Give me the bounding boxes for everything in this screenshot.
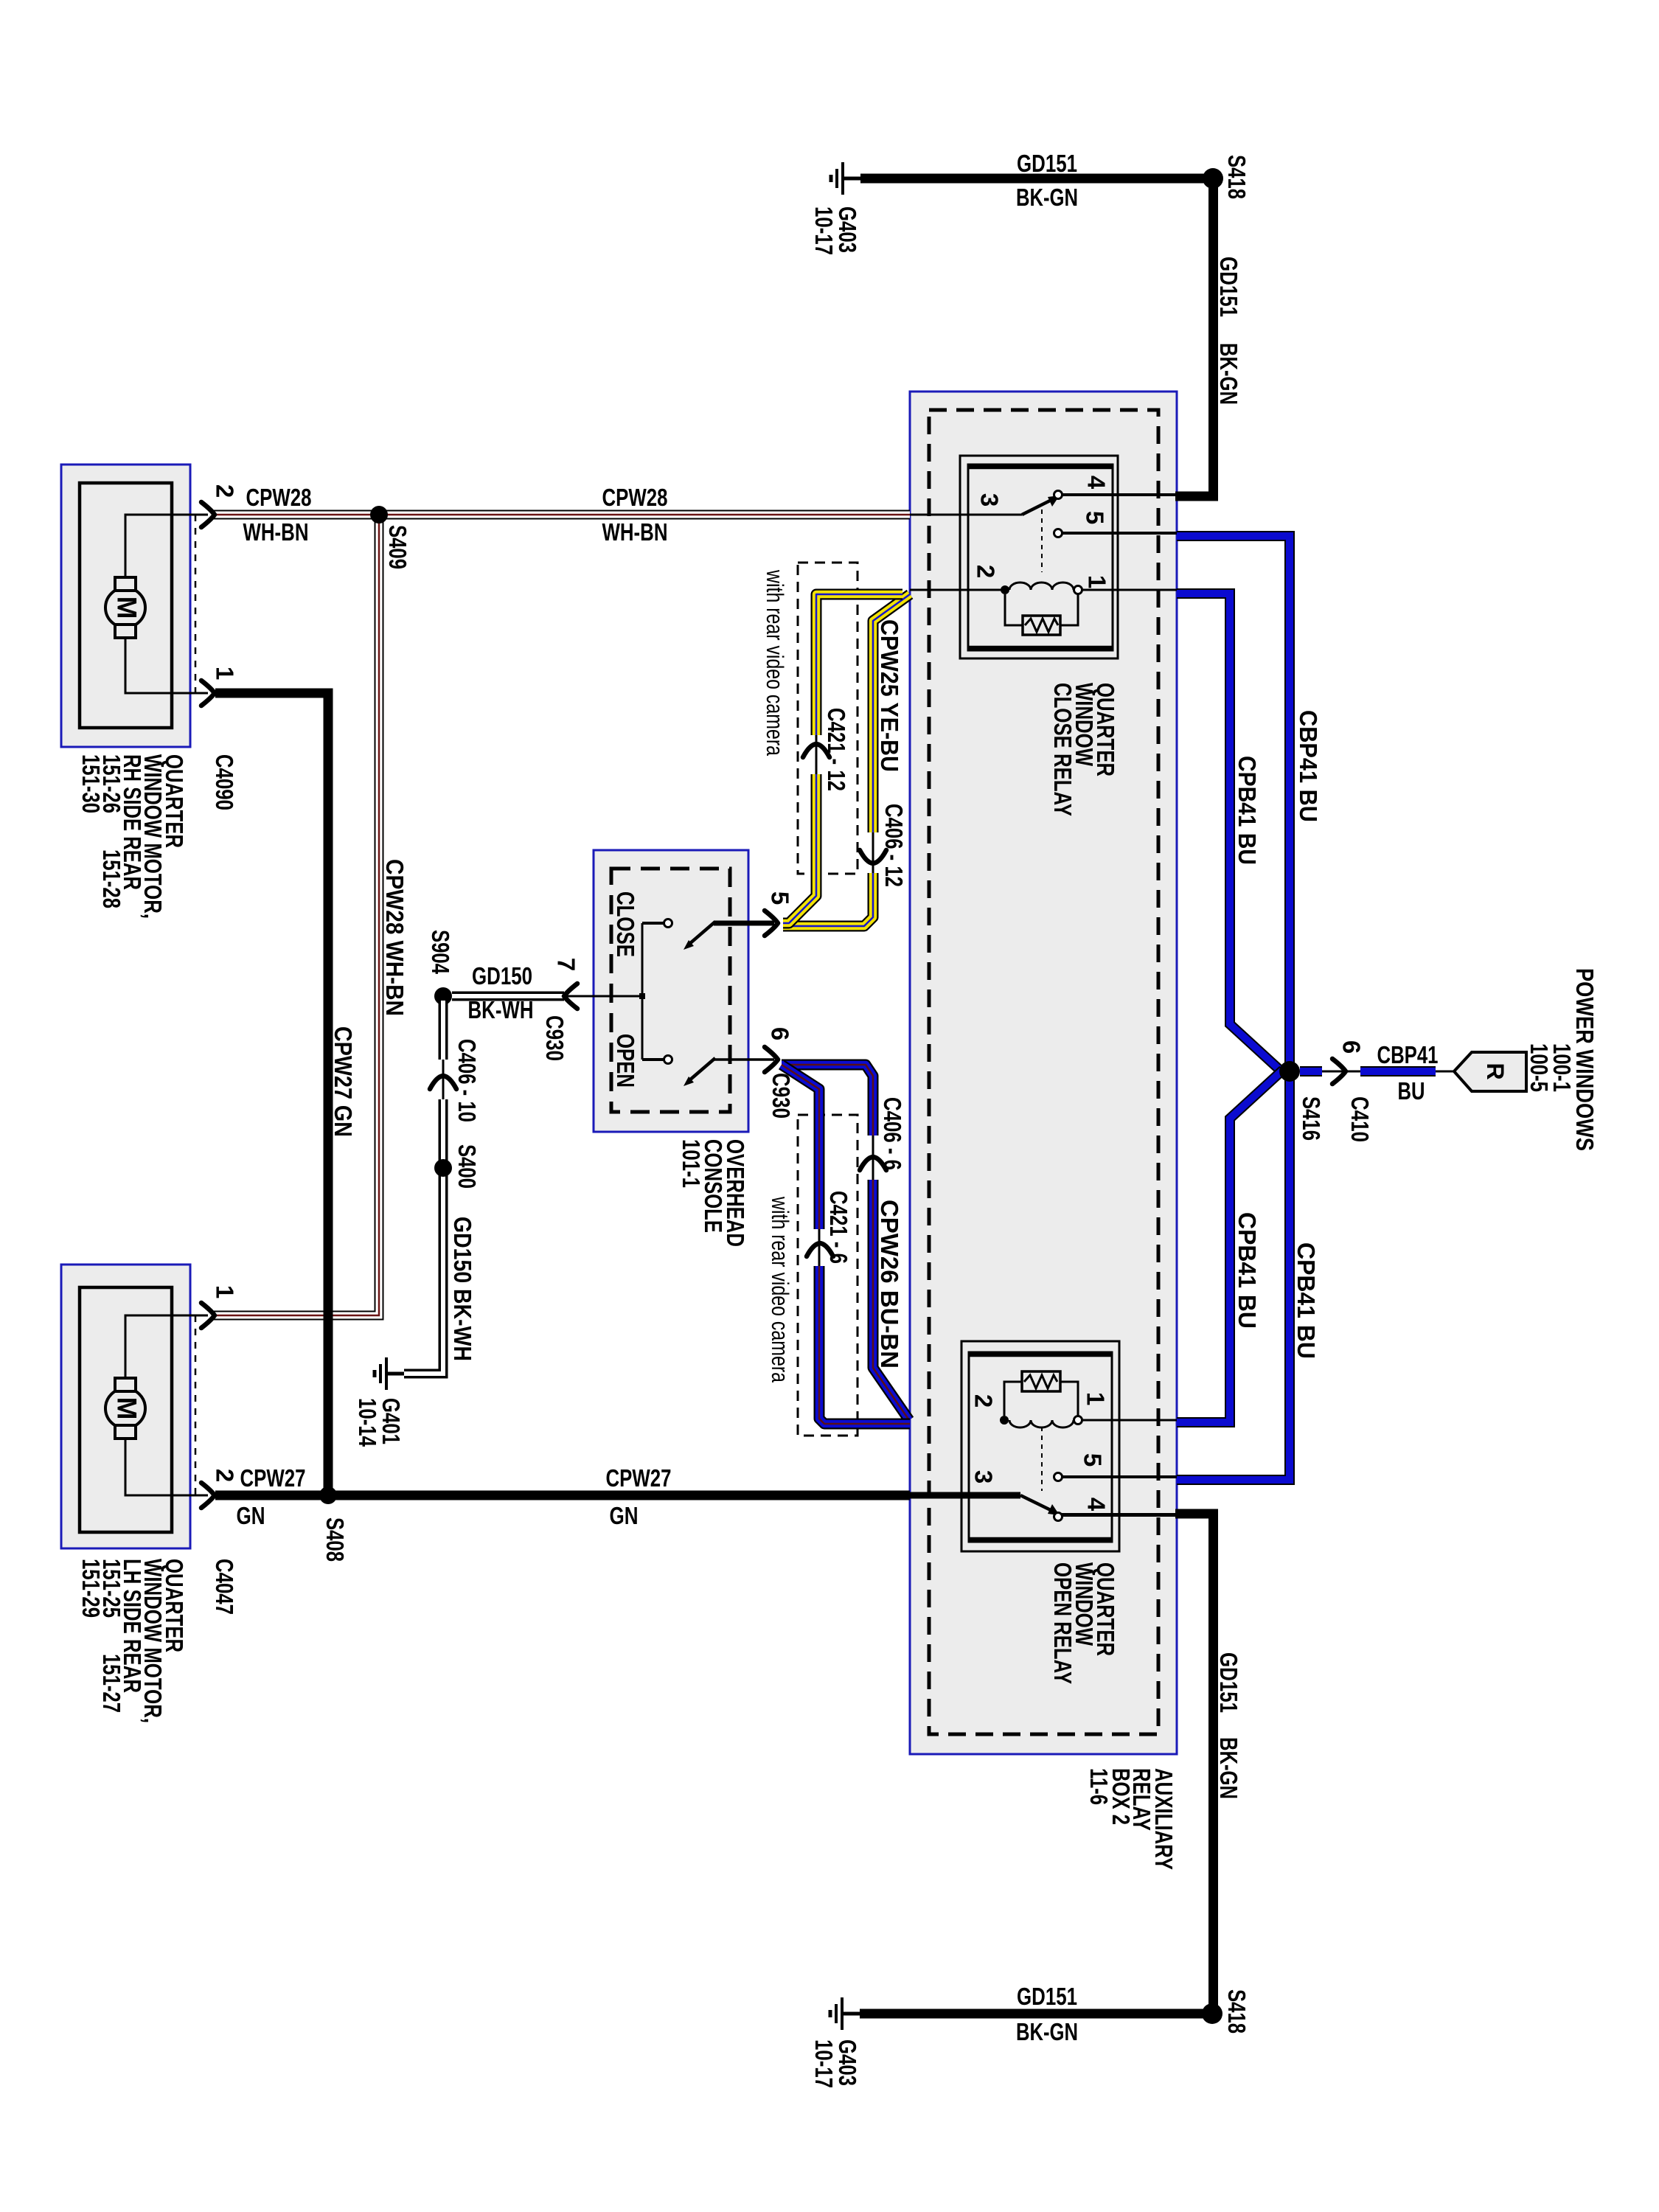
svg-text:5: 5 [1079, 1453, 1107, 1467]
svg-text:CBP41 BU: CBP41 BU [1295, 710, 1322, 822]
svg-text:CPW28: CPW28 [246, 484, 312, 511]
svg-text:GD151: GD151 [1017, 150, 1077, 177]
svg-text:5: 5 [767, 891, 794, 905]
svg-text:BU: BU [1398, 1077, 1425, 1105]
svg-text:BK-GN: BK-GN [1215, 343, 1242, 405]
svg-text:CBP41: CBP41 [1377, 1041, 1439, 1068]
svg-text:6: 6 [767, 1027, 794, 1040]
svg-text:2: 2 [212, 1469, 239, 1482]
svg-text:4: 4 [1083, 1498, 1110, 1512]
svg-text:GN: GN [237, 1502, 265, 1529]
svg-text:OPEN RELAY: OPEN RELAY [1049, 1562, 1077, 1684]
svg-text:R: R [1482, 1062, 1509, 1079]
svg-text:151-28: 151-28 [98, 849, 125, 908]
svg-text:3: 3 [970, 1470, 998, 1484]
svg-text:11-6: 11-6 [1085, 1768, 1113, 1805]
svg-text:GN: GN [610, 1502, 639, 1529]
svg-text:BK-GN: BK-GN [1215, 1737, 1242, 1799]
svg-text:GD151: GD151 [1215, 257, 1242, 317]
svg-text:with rear video camera: with rear video camera [762, 569, 788, 756]
svg-text:101-1: 101-1 [678, 1139, 705, 1188]
svg-text:151-30: 151-30 [77, 754, 105, 813]
svg-text:CLOSE RELAY: CLOSE RELAY [1049, 683, 1077, 816]
svg-text:CPW25 YE-BU: CPW25 YE-BU [876, 619, 903, 772]
svg-text:S904: S904 [427, 930, 454, 974]
svg-text:CPW27: CPW27 [240, 1464, 306, 1492]
svg-text:OPEN: OPEN [612, 1034, 639, 1088]
svg-text:CPW27 GN: CPW27 GN [330, 1026, 357, 1137]
svg-text:1: 1 [1084, 575, 1111, 588]
svg-text:BK-WH: BK-WH [468, 996, 534, 1023]
svg-text:C406 - 6: C406 - 6 [879, 1097, 906, 1170]
svg-text:C930: C930 [768, 1073, 795, 1119]
svg-text:10-17: 10-17 [810, 2039, 838, 2088]
svg-text:C421 - 6: C421 - 6 [825, 1191, 852, 1264]
svg-text:WH-BN: WH-BN [243, 518, 309, 546]
svg-text:100-5: 100-5 [1526, 1043, 1553, 1092]
svg-text:151-29: 151-29 [77, 1559, 105, 1618]
svg-text:GD150: GD150 [472, 962, 532, 990]
svg-text:S418: S418 [1223, 1989, 1251, 2034]
svg-text:CPB41 BU: CPB41 BU [1234, 1212, 1261, 1329]
svg-text:GD151: GD151 [1017, 1983, 1077, 2010]
svg-text:10-17: 10-17 [810, 206, 838, 255]
svg-text:1: 1 [212, 1285, 239, 1298]
svg-text:CPW27: CPW27 [606, 1464, 672, 1492]
svg-text:C406 - 10: C406 - 10 [453, 1039, 481, 1122]
svg-text:BK-GN: BK-GN [1016, 184, 1078, 211]
svg-text:2: 2 [212, 484, 239, 498]
svg-text:C930: C930 [541, 1015, 568, 1061]
svg-text:CPW26 BU-BN: CPW26 BU-BN [876, 1200, 903, 1368]
svg-text:GD150 BK-WH: GD150 BK-WH [449, 1217, 476, 1361]
svg-text:2: 2 [973, 565, 1000, 578]
svg-text:M: M [112, 597, 142, 619]
svg-text:CPB41 BU: CPB41 BU [1293, 1242, 1320, 1359]
svg-text:C410: C410 [1346, 1096, 1374, 1142]
svg-text:10-14: 10-14 [354, 1398, 381, 1447]
svg-text:S418: S418 [1223, 155, 1251, 199]
svg-text:C406 - 12: C406 - 12 [880, 804, 908, 887]
svg-text:CPW28 WH-BN: CPW28 WH-BN [381, 859, 408, 1016]
svg-text:BK-GN: BK-GN [1016, 2018, 1078, 2045]
svg-text:CPW28: CPW28 [602, 484, 668, 511]
svg-text:M: M [112, 1397, 142, 1420]
svg-text:C421 - 12: C421 - 12 [823, 708, 850, 791]
svg-text:S400: S400 [453, 1144, 481, 1189]
svg-text:with rear video camera: with rear video camera [767, 1196, 793, 1382]
svg-text:3: 3 [976, 493, 1004, 507]
svg-text:7: 7 [553, 958, 580, 971]
svg-text:S409: S409 [384, 525, 411, 569]
svg-text:C4047: C4047 [211, 1559, 238, 1615]
svg-text:S408: S408 [321, 1517, 349, 1562]
svg-text:CPB41 BU: CPB41 BU [1234, 756, 1261, 865]
svg-text:WH-BN: WH-BN [602, 518, 668, 546]
svg-text:C4090: C4090 [211, 754, 238, 810]
svg-text:6: 6 [1338, 1040, 1366, 1054]
svg-text:151-27: 151-27 [98, 1654, 125, 1713]
svg-text:1: 1 [212, 667, 239, 680]
svg-text:4: 4 [1083, 476, 1110, 490]
svg-text:5: 5 [1082, 511, 1109, 524]
svg-text:S416: S416 [1298, 1096, 1325, 1141]
svg-text:GD151: GD151 [1215, 1652, 1242, 1713]
svg-text:CLOSE: CLOSE [612, 891, 639, 957]
svg-text:1: 1 [1082, 1392, 1110, 1405]
svg-text:2: 2 [970, 1394, 998, 1408]
